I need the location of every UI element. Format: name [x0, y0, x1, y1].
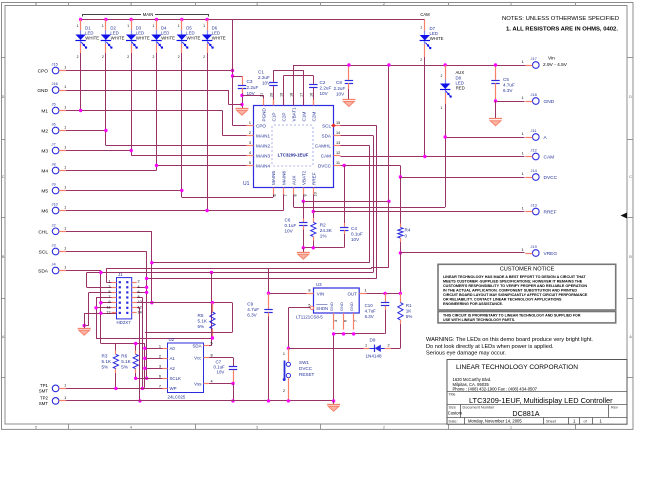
svg-text:2.2uF: 2.2uF — [320, 86, 332, 91]
svg-text:5%: 5% — [121, 365, 128, 370]
junction A1 — [143, 357, 146, 360]
svg-text:14: 14 — [138, 310, 142, 314]
junction gnd J1 — [83, 324, 86, 327]
svg-text:2: 2 — [441, 74, 443, 78]
svg-text:J15: J15 — [52, 62, 58, 67]
wire R3R6 rail — [101, 343, 145, 345]
svg-text:OR RELIABILITY. CONTACT LINEAR: OR RELIABILITY. CONTACT LINEAR TECHNOLOG… — [443, 298, 562, 302]
junction SCL-pin4 — [145, 286, 148, 289]
svg-text:R6: R6 — [121, 354, 127, 359]
svg-text:Rev: Rev — [611, 406, 618, 410]
svg-text:0.1uF: 0.1uF — [285, 223, 297, 228]
svg-text:Date:: Date: — [449, 420, 458, 424]
svg-text:GND: GND — [544, 99, 555, 105]
svg-text:8: 8 — [294, 194, 298, 196]
wire gnd rail R5 — [96, 338, 212, 340]
svg-text:M6: M6 — [41, 209, 48, 215]
wire hdr pin4 — [137, 287, 147, 289]
svg-text:5: 5 — [108, 290, 110, 294]
svg-text:0: 0 — [405, 234, 408, 239]
resistor R5 — [212, 303, 214, 312]
wire M6 net — [66, 210, 284, 212]
svg-text:ENGINEERING FOR ASSISTANCE.: ENGINEERING FOR ASSISTANCE. — [443, 302, 503, 306]
svg-text:10V: 10V — [285, 229, 294, 234]
svg-text:J7: J7 — [52, 142, 56, 147]
svg-text:C1M: C1M — [302, 112, 307, 122]
wire TP2 row — [66, 400, 233, 402]
svg-text:2.2uF: 2.2uF — [258, 75, 270, 80]
svg-text:1: 1 — [64, 66, 66, 70]
svg-text:2: 2 — [138, 280, 140, 284]
wire A0A1A2 rail — [144, 344, 146, 388]
wire U3 gnd rail — [334, 333, 385, 335]
junction U3 gnd1 — [332, 332, 335, 335]
svg-text:2: 2 — [383, 426, 385, 430]
svg-text:GND: GND — [37, 88, 48, 94]
svg-text:C1P: C1P — [272, 113, 277, 122]
wire SDA to U2 — [211, 273, 213, 346]
testpoint TP2 — [52, 398, 59, 405]
connector J9 (M5) — [52, 187, 59, 194]
svg-text:C1: C1 — [258, 70, 264, 75]
svg-text:Size: Size — [449, 406, 456, 410]
wire M2 net — [66, 130, 106, 132]
svg-text:3: 3 — [256, 2, 258, 6]
capacitor C6 — [303, 201, 305, 218]
svg-text:1: 1 — [365, 289, 367, 293]
svg-text:SCL: SCL — [39, 250, 49, 256]
svg-text:11: 11 — [107, 305, 111, 309]
svg-text:DVCC: DVCC — [544, 175, 558, 181]
junction U3rail gnd — [332, 399, 335, 402]
junction R6-SCLK — [134, 377, 137, 380]
junction D2 anode — [104, 18, 107, 21]
wire A0 A1 A2 to rail — [145, 348, 163, 350]
svg-text:19: 19 — [279, 93, 283, 97]
svg-text:CAM: CAM — [544, 155, 555, 161]
wire M5 net — [66, 190, 182, 192]
svg-text:20: 20 — [269, 93, 273, 97]
junction R2 gnd — [312, 246, 315, 249]
svg-text:1: 1 — [420, 26, 422, 30]
svg-text:LINEAR TECHNOLOGY HAS MADE A B: LINEAR TECHNOLOGY HAS MADE A BEST EFFORT… — [443, 275, 586, 279]
diode D9 1N4148 — [364, 348, 370, 350]
svg-text:1: 1 — [64, 206, 66, 210]
svg-text:C2M: C2M — [312, 112, 317, 122]
svg-text:GND: GND — [339, 302, 344, 311]
svg-text:1: 1 — [77, 24, 79, 28]
svg-text:C6: C6 — [285, 218, 291, 223]
svg-text:D: D — [629, 95, 632, 99]
svg-text:CAM: CAM — [321, 153, 331, 158]
svg-text:J12: J12 — [531, 148, 537, 153]
svg-text:R3: R3 — [102, 354, 108, 359]
svg-text:J5: J5 — [52, 102, 56, 107]
svg-text:2: 2 — [420, 58, 422, 62]
svg-text:SCL: SCL — [322, 123, 331, 128]
svg-text:LTC3209-1EUF: LTC3209-1EUF — [278, 153, 309, 158]
svg-text:SDA: SDA — [38, 269, 49, 275]
svg-text:LTC3209-1EUF, Multidisplay LED: LTC3209-1EUF, Multidisplay LED Controlle… — [469, 396, 613, 405]
LED D7 WHITE — [424, 20, 426, 31]
svg-text:6.3V: 6.3V — [365, 314, 374, 319]
svg-text:CIRCUIT BOARD LAYOUT MAY SIGNI: CIRCUIT BOARD LAYOUT MAY SIGNIFICANTLY A… — [443, 293, 588, 297]
LED D1 WHITE — [80, 20, 82, 31]
svg-text:10: 10 — [314, 192, 318, 196]
ground near R2 — [297, 252, 310, 254]
wire hdr pin9 — [101, 302, 117, 304]
capacitor C2 — [313, 87, 315, 99]
svg-text:1: 1 — [64, 266, 66, 270]
svg-text:1: 1 — [64, 85, 66, 89]
svg-text:M3: M3 — [41, 149, 48, 155]
svg-text:J1: J1 — [118, 272, 123, 277]
connector J15 (CPO) — [52, 67, 59, 74]
svg-text:1: 1 — [510, 2, 512, 6]
svg-text:5.1K: 5.1K — [102, 359, 112, 364]
svg-text:6: 6 — [273, 194, 277, 196]
op-amp U1 LTC3209-1EUF body — [254, 106, 334, 188]
wire hdr pin7 — [96, 297, 117, 299]
svg-text:1: 1 — [522, 60, 524, 64]
svg-text:DVCC: DVCC — [318, 163, 332, 168]
wire VREG row — [400, 252, 524, 254]
svg-text:5: 5 — [308, 303, 310, 307]
wire RREF row — [313, 211, 524, 213]
svg-text:5: 5 — [249, 161, 251, 165]
wire Vcc row — [209, 357, 233, 359]
svg-text:1: 1 — [249, 121, 251, 125]
svg-text:4: 4 — [249, 151, 251, 155]
svg-text:SW1: SW1 — [299, 360, 309, 365]
svg-text:8: 8 — [211, 354, 213, 358]
wire A net row — [445, 137, 524, 139]
capacitor C1 — [273, 85, 275, 100]
svg-text:CPO: CPO — [38, 69, 49, 75]
wire C7 to TP2 — [233, 384, 235, 401]
svg-text:1: 1 — [153, 24, 155, 28]
junction SW1 gnd — [287, 399, 290, 402]
U3 pin stubs — [307, 293, 314, 295]
LED D3 WHITE — [131, 20, 133, 31]
junction M5-D5 — [180, 189, 183, 192]
wire hdr pin13 — [84, 313, 116, 315]
wire U3 VIN row — [269, 293, 307, 295]
wire D9 to R1 — [391, 348, 401, 350]
connector J7 (M3) — [52, 147, 59, 154]
svg-text:1: 1 — [365, 344, 367, 348]
svg-text:1: 1 — [64, 186, 66, 190]
connector J14 (DVCC) — [533, 174, 540, 181]
junction hdr pin9 — [99, 301, 102, 304]
svg-text:MAIN3: MAIN3 — [256, 153, 270, 158]
junction VBAT2-Vin — [387, 63, 390, 66]
svg-text:WHITE: WHITE — [111, 36, 125, 41]
ground near C3 — [236, 108, 249, 110]
svg-text:A2: A2 — [170, 366, 176, 371]
svg-text:3: 3 — [108, 285, 110, 289]
svg-text:1: 1 — [522, 207, 524, 211]
junction D5 anode — [180, 18, 183, 21]
svg-text:U1: U1 — [243, 181, 250, 187]
svg-text:C: C — [629, 175, 632, 179]
svg-text:2: 2 — [283, 389, 285, 393]
U1 right pins — [334, 125, 341, 127]
svg-text:1N4148: 1N4148 — [366, 354, 383, 359]
svg-text:SHDN: SHDN — [316, 306, 328, 311]
junction M2-D2 — [104, 129, 107, 132]
svg-text:TP2: TP2 — [40, 396, 49, 401]
junction C9-VIN — [267, 292, 270, 295]
svg-text:2: 2 — [178, 55, 180, 59]
capacitor C8 — [348, 65, 350, 80]
svg-text:SDA: SDA — [192, 343, 201, 348]
svg-text:R5: R5 — [198, 313, 204, 318]
svg-text:2: 2 — [203, 55, 205, 59]
ground near C5 — [489, 118, 502, 120]
wire hdr pin5 — [89, 292, 117, 294]
wire gnd rail C6R2C4 — [303, 247, 343, 249]
svg-text:J6: J6 — [52, 122, 56, 127]
svg-text:1: 1 — [283, 352, 285, 356]
svg-text:M4: M4 — [41, 169, 48, 175]
junction CHL-pin10 — [150, 301, 153, 304]
svg-text:J8: J8 — [52, 162, 56, 167]
svg-text:TP1: TP1 — [40, 383, 49, 388]
svg-text:DVCC: DVCC — [299, 366, 313, 371]
LED D5 WHITE — [181, 20, 183, 31]
svg-text:2: 2 — [388, 344, 390, 348]
svg-text:R4: R4 — [405, 228, 411, 233]
svg-text:GND: GND — [329, 302, 334, 311]
svg-text:4: 4 — [130, 426, 132, 430]
svg-text:7: 7 — [108, 295, 110, 299]
svg-text:Do not look directly at LEDs w: Do not look directly at LEDs when power … — [426, 344, 554, 350]
svg-text:16: 16 — [309, 93, 313, 97]
junction D4 anode — [155, 18, 158, 21]
junction C3-PGND — [240, 94, 243, 97]
capacitor C10 — [385, 293, 387, 302]
sheet arrow marker — [621, 213, 628, 219]
wire SHDN net — [288, 307, 310, 309]
svg-text:J16: J16 — [52, 81, 58, 86]
svg-text:3: 3 — [256, 426, 258, 430]
junction C7-gnd rail — [231, 399, 234, 402]
svg-text:J2: J2 — [52, 222, 56, 227]
svg-text:11: 11 — [336, 161, 340, 165]
svg-text:SMT: SMT — [39, 389, 49, 394]
svg-text:C4: C4 — [351, 226, 357, 231]
svg-text:9: 9 — [304, 194, 308, 196]
svg-text:Title: Title — [449, 393, 456, 397]
svg-text:3: 3 — [159, 364, 161, 368]
svg-text:5.1K: 5.1K — [121, 359, 131, 364]
junction C3-GND — [240, 103, 243, 106]
svg-text:Document Number: Document Number — [463, 406, 496, 410]
svg-text:1: 1 — [127, 24, 129, 28]
wire SCL net — [341, 125, 377, 127]
svg-text:A1: A1 — [170, 356, 176, 361]
resistor R6 — [135, 350, 137, 354]
junction hdr pin13 — [99, 311, 102, 314]
svg-text:6: 6 — [344, 320, 348, 322]
svg-text:MAIN4: MAIN4 — [256, 163, 270, 168]
svg-text:C5: C5 — [503, 77, 509, 82]
svg-text:1: 1 — [510, 426, 512, 430]
svg-text:6: 6 — [138, 290, 140, 294]
connector J19 (VREG) — [533, 250, 540, 257]
IC U3 LT1121 — [314, 288, 360, 313]
connector J13 (RREF) — [533, 208, 540, 215]
LED D6 WHITE — [207, 20, 209, 31]
junction pin12-gnd — [138, 399, 141, 402]
wire CHL row — [66, 231, 152, 233]
connector J11 (A) — [533, 134, 540, 141]
svg-text:1. ALL RESISTORS ARE IN OHMS,: 1. ALL RESISTORS ARE IN OHMS, 0402. — [506, 27, 618, 33]
wire VREG to OUT — [400, 253, 402, 294]
wire GND row — [66, 90, 229, 92]
junction DVCC-C4 — [343, 164, 346, 167]
svg-text:2: 2 — [102, 55, 104, 59]
junction Vss-C7 — [231, 382, 234, 385]
svg-text:J19: J19 — [531, 244, 537, 249]
capacitor C4 — [344, 166, 346, 224]
svg-text:5: 5 — [35, 2, 37, 6]
svg-text:3: 3 — [334, 320, 338, 322]
svg-text:DC881A: DC881A — [512, 409, 539, 418]
svg-text:GND: GND — [349, 302, 354, 311]
svg-text:RESET: RESET — [299, 372, 315, 377]
junction R5 top — [211, 301, 214, 304]
svg-text:18: 18 — [289, 93, 293, 97]
wire hdr pin10 row — [137, 302, 233, 304]
svg-text:1: 1 — [64, 146, 66, 150]
connector J5 (M1) — [52, 107, 59, 114]
wire TP1 row — [66, 388, 163, 390]
junction M6-D6 — [205, 209, 208, 212]
svg-text:9: 9 — [108, 300, 110, 304]
resistor R3 — [115, 350, 117, 354]
LED D4 WHITE — [156, 20, 158, 31]
junction RREF — [312, 210, 315, 213]
svg-text:MEETS CUSTOMER -SUPPLIED SPECI: MEETS CUSTOMER -SUPPLIED SPECIFICATIONS;… — [443, 279, 583, 283]
svg-text:WARNING: The LEDs on this demo: WARNING: The LEDs on this demo board pro… — [426, 337, 593, 343]
svg-text:10V: 10V — [262, 81, 271, 86]
svg-text:VBAT1: VBAT1 — [292, 107, 297, 122]
svg-text:MAIN6: MAIN6 — [282, 171, 287, 185]
capacitor C7 — [229, 366, 237, 368]
wire CAM net — [341, 156, 525, 158]
svg-text:D: D — [2, 95, 5, 99]
svg-text:2: 2 — [159, 354, 161, 358]
svg-text:VIN: VIN — [317, 291, 324, 296]
svg-text:2: 2 — [153, 55, 155, 59]
LED D2 WHITE — [105, 20, 107, 31]
connector J18 (GND) — [533, 98, 540, 105]
frame zone ticks — [68, 3, 70, 6]
testpoint TP1 — [52, 385, 59, 392]
svg-text:OUT: OUT — [348, 291, 358, 296]
svg-text:8: 8 — [308, 289, 310, 293]
junction M4-D4 — [155, 164, 158, 167]
wire hdr pin3 — [86, 273, 88, 288]
svg-text:J11: J11 — [531, 128, 537, 133]
junction D1 anode — [79, 18, 82, 21]
svg-text:7: 7 — [159, 384, 161, 388]
svg-text:J17: J17 — [531, 56, 537, 61]
junction A0 — [143, 347, 146, 350]
svg-text:6.3V: 6.3V — [503, 88, 513, 93]
wire SCLK row — [136, 378, 163, 380]
svg-text:1: 1 — [522, 172, 524, 176]
svg-text:WHITE: WHITE — [136, 36, 150, 41]
resistor R4 — [400, 177, 402, 228]
svg-text:VREG: VREG — [544, 251, 558, 257]
svg-text:AUX: AUX — [292, 176, 297, 185]
svg-text:4.7uF: 4.7uF — [365, 309, 377, 314]
svg-text:12: 12 — [138, 305, 142, 309]
wire SDA net right — [341, 135, 374, 137]
svg-text:MAIN2: MAIN2 — [256, 143, 270, 148]
wire Vin rail — [293, 65, 295, 106]
wire bottom gnd rail — [66, 400, 334, 402]
svg-text:MAIN: MAIN — [143, 12, 153, 17]
svg-text:A0: A0 — [170, 346, 176, 351]
svg-text:4: 4 — [130, 2, 132, 6]
svg-text:C3: C3 — [247, 79, 253, 84]
connector J1 (HD2X7) — [117, 278, 132, 319]
svg-text:Custom: Custom — [448, 411, 463, 416]
connector J4 (SDA) — [52, 267, 59, 274]
connector J17 (Vin) — [533, 62, 540, 69]
ground bottom — [327, 404, 340, 406]
junction CPO — [231, 69, 234, 72]
svg-text:1: 1 — [159, 344, 161, 348]
connector J16 (GND) — [52, 87, 59, 94]
IC U2 24LC025 — [168, 343, 204, 393]
junction pin8-WP — [141, 387, 144, 390]
svg-text:4: 4 — [138, 285, 140, 289]
junction C5-Vin — [494, 63, 497, 66]
svg-text:U2: U2 — [169, 337, 175, 342]
switch SW1 DVCC RESET — [288, 348, 290, 361]
svg-text:1: 1 — [64, 126, 66, 130]
junction R5 bottom — [211, 336, 214, 339]
connector J10 (M6) — [52, 207, 59, 214]
junction D3 anode — [130, 18, 133, 21]
svg-text:Vcc: Vcc — [194, 355, 202, 360]
svg-text:4.7uF: 4.7uF — [503, 83, 515, 88]
svg-text:Sheet: Sheet — [546, 420, 557, 424]
junction U3 gnd2 — [342, 332, 345, 335]
svg-text:Phone : (408) 432-1900 Fax :: Phone : (408) 432-1900 Fax : (408) 434-0… — [453, 387, 538, 392]
wire C5 to ground — [495, 101, 497, 119]
wire Vss row — [209, 383, 233, 385]
svg-text:2: 2 — [77, 55, 79, 59]
wire U3 VIN feed — [388, 201, 390, 267]
svg-text:21: 21 — [259, 93, 263, 97]
svg-text:1: 1 — [178, 24, 180, 28]
svg-text:LT1121CS8-5: LT1121CS8-5 — [296, 315, 323, 320]
capacitor C9 — [268, 293, 270, 309]
svg-text:CUSTOMER NOTICE: CUSTOMER NOTICE — [500, 267, 555, 273]
svg-text:2.9V - 4.5V: 2.9V - 4.5V — [543, 62, 568, 68]
svg-text:12: 12 — [336, 151, 340, 155]
svg-text:17: 17 — [299, 93, 303, 97]
CPO top bus wire — [81, 19, 425, 21]
wire hdr pin6 — [137, 292, 147, 294]
wire DVCC row — [341, 165, 401, 167]
